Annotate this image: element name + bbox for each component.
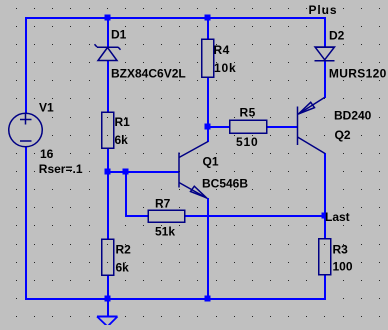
junction node ground xyxy=(105,296,111,302)
svg-text:6k: 6k xyxy=(115,133,129,147)
wire Q1 base xyxy=(107,171,179,173)
wire D1 to R1 xyxy=(107,61,109,112)
svg-text:51k: 51k xyxy=(155,225,175,239)
svg-text:R1: R1 xyxy=(115,115,131,129)
svg-text:BD240: BD240 xyxy=(334,109,372,123)
junction node top R4 xyxy=(205,15,211,21)
wire R7 right to Last xyxy=(185,215,327,217)
resistor R3 xyxy=(319,239,331,275)
resistor R5 xyxy=(230,120,267,133)
svg-text:Q1: Q1 xyxy=(203,155,219,169)
junction node emitter bottom xyxy=(205,296,211,302)
wire left rail xyxy=(25,17,27,299)
wire Q2 collector to Last xyxy=(324,153,326,216)
resistor R4 xyxy=(202,39,214,77)
wire base node to R2 xyxy=(107,171,109,239)
transistor Q2 xyxy=(298,98,326,154)
svg-text:Last: Last xyxy=(325,210,350,224)
wire top rail xyxy=(25,17,326,19)
resistor R2 xyxy=(102,239,114,275)
wire R5 right to Q2 base xyxy=(267,126,298,128)
svg-text:R2: R2 xyxy=(116,243,132,257)
wire R2 to bottom rail xyxy=(107,275,109,299)
junction node Last xyxy=(322,213,328,219)
diode D2 xyxy=(315,47,335,61)
svg-text:10k: 10k xyxy=(214,61,236,75)
wire R4 to R5 node xyxy=(207,77,209,142)
wire R3 to bottom rail xyxy=(324,274,326,299)
resistor R7 xyxy=(148,210,185,222)
wire top to R4 xyxy=(207,17,209,39)
svg-text:D1: D1 xyxy=(111,28,127,42)
svg-text:R7: R7 xyxy=(155,197,171,211)
junction node R5 collector xyxy=(205,124,211,130)
svg-text:R4: R4 xyxy=(214,43,230,57)
wire R5 left xyxy=(207,126,230,128)
transistor Q1 xyxy=(179,142,208,199)
svg-text:16: 16 xyxy=(40,147,54,161)
wire R1 to base node xyxy=(107,148,109,172)
svg-text:V1: V1 xyxy=(39,101,54,115)
svg-text:BC546B: BC546B xyxy=(202,177,248,191)
svg-text:510: 510 xyxy=(236,135,258,149)
junction node base R7 xyxy=(123,169,129,175)
wire D1 column upper xyxy=(107,17,109,47)
svg-text:R5: R5 xyxy=(240,106,256,120)
svg-text:MURS120: MURS120 xyxy=(329,67,387,81)
wire ground stub xyxy=(107,298,109,316)
svg-text:D2: D2 xyxy=(329,29,345,43)
svg-text:100: 100 xyxy=(333,260,353,274)
wire Last to R3 xyxy=(324,215,326,239)
svg-text:R3: R3 xyxy=(333,243,349,257)
svg-text:6k: 6k xyxy=(116,261,130,275)
ground xyxy=(97,317,118,327)
wire R7 branch vertical xyxy=(125,171,127,216)
wire bottom rail xyxy=(25,298,326,300)
svg-text:Q2: Q2 xyxy=(335,128,351,142)
zener diode D1 xyxy=(95,44,121,60)
svg-text:Rser=.1: Rser=.1 xyxy=(39,162,83,176)
wire right column D2 top xyxy=(324,17,326,47)
svg-text:Plus: Plus xyxy=(309,3,338,17)
resistor R1 xyxy=(102,112,114,148)
svg-text:BZX84C6V2L: BZX84C6V2L xyxy=(111,67,186,81)
wire D2 to Q2 emitter xyxy=(324,61,326,98)
junction node base R1 xyxy=(105,169,111,175)
voltage source V1 xyxy=(9,113,43,147)
wire Q1 emitter down xyxy=(207,198,209,299)
wire R7 left xyxy=(125,215,148,217)
junction node top D1 xyxy=(105,15,111,21)
